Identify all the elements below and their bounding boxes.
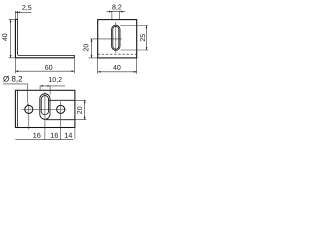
dim 20 (right of plan): arrows: [84, 100, 86, 119]
dim 20 (left of flange): top extension line through slot centre: [90, 38, 122, 40]
part outline: vertical leg outer face: [14, 19, 16, 57]
slot inner contour (obround): [113, 26, 119, 49]
dim 20 (left of flange): bottom extension line: [89, 57, 98, 59]
dim 25 (right): label (rotated): [140, 34, 145, 41]
dim 40 (left): arrows: [10, 19, 12, 57]
dim 20 (right of plan): bottom extension line: [75, 119, 86, 121]
plan slot vertical centerline + chain tick: [44, 92, 46, 139]
dim 60 (bottom): extension lines: [15, 58, 74, 73]
chain label 16 (first): [33, 133, 40, 138]
dim 60 (bottom): label: [45, 65, 52, 70]
dim 60 (bottom): dimension line: [15, 70, 74, 72]
leader Ø8,2: arrowhead: [27, 103, 29, 106]
plan step line upper: [49, 99, 75, 101]
part outline: horizontal leg outer bottom: [15, 57, 74, 59]
dim 20 (left of flange): label (rotated): [83, 44, 88, 51]
plan outline: flange inner face: [17, 90, 19, 127]
hidden thickness line (dashed): [98, 53, 137, 55]
hole H2 vertical centerline + chain tick: [60, 101, 62, 139]
dim 40 (below flange): dimension line: [98, 71, 137, 73]
dim 25 (right): arrows: [146, 26, 148, 51]
plan outline rectangle: [15, 90, 75, 127]
chain label 14: [65, 133, 72, 138]
dim 2,5: dimension line: [15, 11, 31, 13]
dim 40 (left): dimension line: [10, 19, 12, 57]
dim 2,5: extension lines above leg: [15, 11, 17, 19]
dim 40 (left): label (rotated): [2, 34, 7, 41]
hole H2: [57, 105, 65, 113]
part outline: leg top edge: [15, 18, 18, 20]
common horizontal centerline: [21, 108, 66, 110]
dim 40 (left): top extension line: [9, 18, 15, 20]
dim 2,5: arrows: [15, 11, 19, 13]
dim 25 (right): dimension line: [146, 26, 148, 51]
hole H1 vertical centerline + chain tick: [28, 104, 30, 130]
dim 8,2: arrows: [109, 11, 122, 13]
dim 20 (right of plan): dimension line: [84, 100, 86, 119]
plan slot outer ring (obround): [40, 94, 50, 120]
dim 40 (below flange): extension lines: [98, 58, 137, 73]
leader Ø8,2: text underline: [3, 83, 28, 85]
plan step line lower: [46, 119, 75, 121]
dim 40 (below flange): label: [113, 65, 120, 70]
chain dims 16/16/14: dimension line: [15, 139, 73, 141]
dim 25 (right): extension lines: [120, 26, 148, 51]
dim 20 (left of flange): arrows: [91, 39, 93, 58]
dim 10,2: arrows: [40, 85, 50, 87]
dim 20 (left of flange): dimension line: [91, 39, 93, 58]
dim 10,2: extension lines down to slot ring: [40, 86, 50, 94]
dim 40 (below flange): arrows: [98, 71, 137, 73]
dim 20 (right of plan): top extension line: [75, 99, 86, 101]
dim 60 (bottom): arrows: [15, 70, 74, 72]
dim 20 (right of plan): label (rotated): [77, 107, 82, 114]
leader Ø8,2: leader line: [26, 84, 28, 103]
part outline: vertical leg inner face with fillet to inner bottom: [18, 19, 75, 55]
slot vertical centerline: [115, 22, 117, 53]
hole H1: [25, 105, 33, 113]
chain label 16 (second): [51, 133, 58, 138]
dim 2,5: label: [22, 5, 31, 11]
chain dims: right edge extension below part: [74, 128, 76, 139]
slot outer contour (obround): [112, 25, 120, 50]
dim 8,2: label: [112, 5, 121, 11]
dim 40 (left): bottom extension line: [9, 57, 16, 59]
label Ø8,2: [3, 76, 22, 83]
flange rectangle: [98, 20, 137, 58]
dim 8,2: extension lines: [112, 11, 120, 19]
dim 8,2: dimension line: [106, 11, 125, 13]
part outline: leg right end cap: [73, 55, 75, 58]
dim 10,2: dimension line: [40, 85, 65, 87]
dim 10,2: label: [49, 77, 62, 83]
plan slot inner (obround): [41, 96, 48, 115]
